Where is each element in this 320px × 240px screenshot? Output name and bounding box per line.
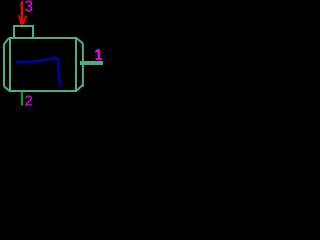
top-right chamfer [77, 38, 84, 44]
bottom-right chamfer [77, 85, 83, 91]
bottom-left chamfer [4, 86, 9, 91]
right outer edge [82, 44, 84, 87]
svg-text:3: 3 [25, 0, 34, 15]
arrow barb left [19, 15, 21, 23]
port 2 terminal stub [21, 92, 23, 106]
actuation arrow shaft [21, 1, 23, 25]
label 1 [95, 49, 102, 60]
svg-text:2: 2 [25, 93, 33, 110]
top-left chamfer [4, 38, 9, 45]
top port boss (nub) [14, 26, 33, 38]
valve body front face [10, 38, 76, 91]
internal lever (blue) [16, 58, 60, 86]
arrow barb right [23, 16, 26, 24]
left outer edge [3, 44, 5, 86]
port 1 bar [80, 61, 103, 65]
